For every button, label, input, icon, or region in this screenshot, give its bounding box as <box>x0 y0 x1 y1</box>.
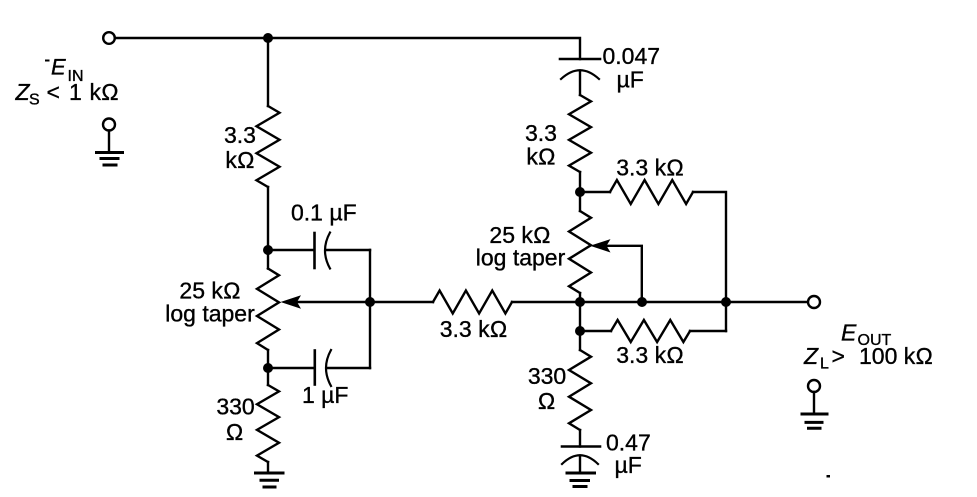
resistor R6 330 ohm right vertical <box>569 350 591 430</box>
junction node D : R5 / R6 right <box>575 326 585 336</box>
svg-text:Ω: Ω <box>538 388 556 414</box>
resistor R6 330 ohm left vertical <box>257 385 279 462</box>
wire P2 bottom through main line to node D <box>579 293 581 331</box>
potentiometer P1 25k log taper element <box>257 269 279 351</box>
capacitor C4 0.47uF <box>562 445 600 448</box>
svg-text:log taper: log taper <box>165 301 255 327</box>
ground below left 330 <box>256 473 284 487</box>
svg-text:3.3 kΩ: 3.3 kΩ <box>616 342 684 368</box>
svg-text:kΩ: kΩ <box>526 144 555 170</box>
wire C2 right to riser <box>327 367 371 369</box>
input terminal <box>103 32 115 44</box>
svg-text:kΩ: kΩ <box>225 147 254 173</box>
potentiometer P2 25k log taper element <box>569 211 591 293</box>
junction node top rail / R1 <box>263 33 273 43</box>
svg-text:3.3 kΩ: 3.3 kΩ <box>616 155 684 181</box>
resistor R3 3.3k right vertical <box>569 95 591 172</box>
svg-text:µF: µF <box>617 67 644 93</box>
resistor R2 3.3k middle horizontal <box>433 291 512 314</box>
ground symbol at input <box>103 119 115 131</box>
capacitor C2 1uF <box>313 351 316 385</box>
svg-text:log taper: log taper <box>476 245 566 271</box>
junction node B : P1 bottom / C2 <box>263 363 273 373</box>
ground below C4 <box>567 473 595 487</box>
junction node P2 bottom on main line <box>575 297 585 307</box>
junction node C : riser / wiper / R2 <box>365 297 375 307</box>
svg-text:330: 330 <box>528 363 566 389</box>
svg-text:0.1 µF: 0.1 µF <box>291 200 357 226</box>
wire R4 left lead <box>580 191 610 193</box>
speck near EIN <box>45 60 50 62</box>
svg-text:0.047: 0.047 <box>603 43 661 69</box>
svg-text:330: 330 <box>216 394 254 420</box>
svg-text:<: < <box>47 79 60 105</box>
svg-text:S: S <box>29 92 40 109</box>
svg-text:3.3: 3.3 <box>224 122 256 148</box>
output terminal <box>808 296 820 308</box>
svg-text:E: E <box>51 55 66 80</box>
wire R5 right lead <box>690 330 726 332</box>
wire main output line <box>512 301 808 303</box>
svg-text:kΩ: kΩ <box>90 79 119 105</box>
svg-text:3.3 kΩ: 3.3 kΩ <box>440 316 508 342</box>
svg-text:E: E <box>841 320 857 346</box>
resistor R4 3.3k top-right horizontal <box>610 180 693 204</box>
svg-text:100 kΩ: 100 kΩ <box>859 343 933 369</box>
svg-text:>: > <box>832 343 845 369</box>
wire R4 right lead and right riser <box>693 192 726 331</box>
wire C3 to R3 <box>579 71 581 96</box>
wire node A to C1 left plate <box>268 249 314 251</box>
junction node P2 wiper on main line <box>637 297 647 307</box>
junction node R3 / R4 / P2 <box>575 187 585 197</box>
wire to left 330 ground <box>267 462 269 472</box>
svg-text:Ω: Ω <box>226 419 244 445</box>
svg-text:L: L <box>820 356 829 373</box>
capacitor C1 0.1uF <box>313 233 316 268</box>
wire R2 left lead <box>370 301 433 303</box>
wiper wire P1 <box>295 301 370 303</box>
wire R5 left lead <box>580 330 611 332</box>
svg-text:3.3: 3.3 <box>525 120 557 146</box>
wire C4 to ground <box>579 456 581 472</box>
svg-text:1 µF: 1 µF <box>302 382 348 408</box>
wire node D to R6 right <box>579 331 581 350</box>
svg-text:µF: µF <box>615 452 642 478</box>
wire P1 bottom to R6 left <box>267 350 269 385</box>
wire top rail from input to C3 branch <box>115 38 580 59</box>
wiper wire P2 <box>606 246 642 302</box>
ground symbol at output <box>808 380 820 392</box>
wire R3 to P2 <box>579 172 581 211</box>
resistor R5 3.3k bottom-right horizontal <box>611 320 690 342</box>
wire node B to C2 left plate <box>268 367 314 369</box>
junction node right riser on main line <box>721 297 731 307</box>
wire C1 right to riser <box>326 249 370 251</box>
capacitor C3 0.047uF <box>560 58 600 61</box>
resistor R1 3.3k left vertical <box>257 106 280 187</box>
wire riser between caps <box>369 250 371 368</box>
svg-text:1: 1 <box>69 79 82 105</box>
wiper arrowhead P1 <box>281 295 302 308</box>
wiper arrowhead P2 <box>590 239 611 252</box>
wire R1 top stub <box>267 38 269 106</box>
wire R6 to C4 <box>579 430 581 447</box>
wire R1 to P1 <box>267 187 269 269</box>
svg-text:Z: Z <box>803 343 819 369</box>
junction node A : P1 top / C1 <box>263 245 273 255</box>
speck below ZL label <box>827 475 831 478</box>
